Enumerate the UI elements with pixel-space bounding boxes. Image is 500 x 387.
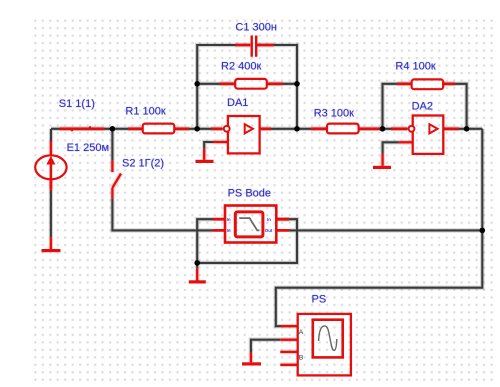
ground (bode) <box>189 280 206 283</box>
node: DA1 output <box>294 126 300 132</box>
node: R2 right <box>294 81 300 87</box>
node: S2 tap <box>110 126 116 132</box>
op-amp DA1 <box>224 116 260 153</box>
resistor R3 body <box>327 124 359 134</box>
svg-text:Out: Out <box>265 228 273 233</box>
svg-text:B: B <box>299 355 304 362</box>
svg-text:PS Bode: PS Bode <box>228 188 271 200</box>
resistor R4 body <box>412 79 444 89</box>
svg-text:A: A <box>299 329 304 336</box>
oscilloscope PS <box>298 314 351 376</box>
node: DA1 input <box>194 126 200 132</box>
svg-text:S1 1(1): S1 1(1) <box>59 98 95 110</box>
svg-text:R1 100к: R1 100к <box>125 106 165 118</box>
resistor R2 body <box>235 79 267 89</box>
svg-text:PS: PS <box>312 293 327 305</box>
svg-text:R2 400к: R2 400к <box>221 60 261 72</box>
resistor R1 body <box>143 124 175 134</box>
node: DA2 input <box>380 126 386 132</box>
node: R2 left <box>194 81 200 87</box>
ground (DA2) <box>373 166 391 169</box>
svg-text:S2 1Г(2): S2 1Г(2) <box>122 158 164 170</box>
svg-text:R3 100к: R3 100к <box>314 107 354 119</box>
node: DA2 output <box>464 126 470 132</box>
svg-text:DA1: DA1 <box>227 97 248 109</box>
ground (scope) <box>242 362 261 365</box>
ground (DA1) <box>196 160 214 163</box>
op-amp DA2 <box>409 116 444 154</box>
svg-text:In: In <box>267 217 271 222</box>
node: bode out / scope A <box>480 228 486 234</box>
svg-text:R4 100к: R4 100к <box>395 60 435 72</box>
svg-text:In: In <box>227 228 231 233</box>
svg-text:In: In <box>227 217 231 222</box>
bode plotter PS Bode <box>225 206 276 243</box>
svg-text:C1 300н: C1 300н <box>235 22 277 34</box>
source E1 <box>35 155 66 189</box>
svg-text:E1 250м: E1 250м <box>67 142 109 154</box>
svg-text:DA2: DA2 <box>412 100 433 112</box>
ground (E1) <box>42 249 61 252</box>
node: bode ground <box>194 260 200 266</box>
